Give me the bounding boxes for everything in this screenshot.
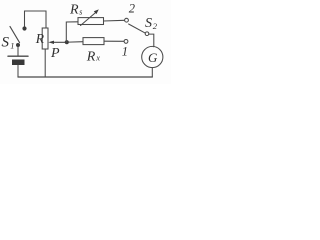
node contact 2 circle xyxy=(125,18,129,22)
wire G to bottom rail xyxy=(151,68,153,77)
resistor Rs box xyxy=(78,18,104,25)
svg-text:2: 2 xyxy=(129,2,135,16)
wire Rx to contact 1 xyxy=(104,40,124,42)
battery long thin plate xyxy=(8,55,28,57)
svg-text:S: S xyxy=(2,35,10,51)
node S2 pivot circle xyxy=(145,32,149,36)
resistor Rx box xyxy=(83,38,104,45)
svg-text:R: R xyxy=(69,3,79,18)
wire S1 to battery xyxy=(17,47,19,56)
svg-text:1: 1 xyxy=(122,44,128,58)
switch S1 blade xyxy=(10,27,20,43)
switch S2 blade xyxy=(129,24,146,33)
wire R bottom to rail xyxy=(44,49,46,77)
svg-text:P: P xyxy=(50,46,60,61)
svg-text:1: 1 xyxy=(10,40,14,50)
svg-text:x: x xyxy=(95,53,100,63)
wire bottom rail xyxy=(18,76,152,78)
galvanometer G circle xyxy=(142,46,163,67)
wire battery to bottom rail xyxy=(17,65,19,77)
battery short thick plate xyxy=(12,60,25,66)
wire S2 pivot to G xyxy=(149,34,154,47)
node S1 bottom terminal dot xyxy=(16,43,20,47)
svg-text:R: R xyxy=(35,31,45,46)
svg-text:S: S xyxy=(145,16,152,31)
wiper P arrow into R xyxy=(54,41,67,43)
node contact 1 circle xyxy=(124,40,128,44)
svg-text:2: 2 xyxy=(153,21,158,31)
svg-text:G: G xyxy=(148,50,158,65)
wire junction to Rx xyxy=(69,41,83,43)
wire junction up to Rs xyxy=(66,22,78,42)
svg-text:R: R xyxy=(86,49,96,64)
resistor R box xyxy=(42,28,48,49)
wire Rs to contact 2 xyxy=(104,19,125,22)
node S1 top terminal dot xyxy=(22,26,26,30)
wire top-left loop xyxy=(25,11,47,28)
svg-text:s: s xyxy=(79,7,82,16)
rheostat Rs arrow xyxy=(81,12,96,25)
node wiper junction dot xyxy=(65,40,69,44)
